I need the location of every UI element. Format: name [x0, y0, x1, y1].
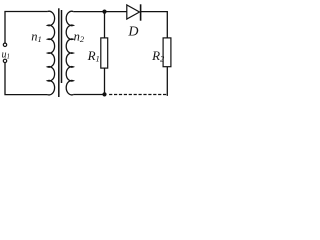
svg-text:D: D	[127, 25, 138, 40]
